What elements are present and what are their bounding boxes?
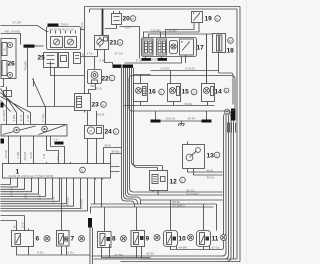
circle sym 19	[215, 16, 221, 22]
component 20	[105, 11, 140, 59]
svg-text:HEI JAUNE: HEI JAUNE	[5, 30, 21, 34]
svg-text:S: S	[216, 17, 218, 21]
wire 23 to 24	[88, 111, 97, 126]
svg-text:45 B: 45 B	[207, 168, 213, 172]
svg-text:9 Gx: 9 Gx	[68, 251, 75, 255]
svg-text:93 Bx: 93 Bx	[185, 102, 193, 106]
wires below 17 row	[125, 57, 186, 64]
circle sym 22	[109, 75, 115, 81]
component 16	[134, 84, 148, 102]
bundle top stubs	[122, 68, 134, 71]
svg-text:27 CA: 27 CA	[115, 52, 123, 56]
circle sym 16	[159, 89, 165, 95]
wires from 25 cluster down	[28, 48, 85, 125]
svg-text:2 RB: 2 RB	[12, 115, 16, 122]
svg-text:B: B	[4, 48, 6, 52]
component 24 blower	[85, 126, 104, 139]
frame right border	[237, 7, 240, 262]
junction node	[225, 109, 230, 114]
svg-text:13: 13	[207, 153, 215, 160]
svg-text:94 BR: 94 BR	[179, 246, 188, 250]
circle sym 24	[113, 129, 119, 135]
circle sym 20	[130, 16, 136, 22]
svg-text:29 GR: 29 GR	[4, 149, 8, 159]
svg-text:103 B: 103 B	[97, 113, 105, 117]
svg-text:93 DxRQ: 93 DxRQ	[187, 192, 200, 196]
circle sym 12	[180, 177, 186, 183]
multifunction switch wide box (component 2)	[1, 125, 67, 137]
svg-text:16: 16	[149, 89, 157, 96]
black bar on wire x91	[88, 218, 92, 228]
svg-text:S: S	[102, 103, 104, 107]
band right segments	[91, 200, 223, 207]
svg-text:10: 10	[179, 236, 187, 243]
svg-text:93 BxRQ: 93 BxRQ	[173, 204, 186, 208]
circle sym 21	[117, 40, 123, 46]
frame bottom border	[121, 259, 241, 262]
circle sym 6	[44, 236, 50, 242]
left edge nub 1	[1, 103, 4, 108]
svg-text:9: 9	[146, 236, 150, 243]
svg-text:9 G/42: 9 G/42	[161, 67, 170, 71]
svg-text:2 R: 2 R	[56, 155, 60, 161]
svg-text:S: S	[216, 153, 218, 157]
fusebox right outputs	[62, 178, 102, 231]
component 26 (instrument box)	[1, 39, 16, 79]
svg-text:24: 24	[105, 129, 113, 136]
svg-text:JAUNE: JAUNE	[65, 197, 69, 207]
component 15	[168, 84, 181, 102]
circle sym 14	[224, 88, 229, 93]
wire 27GR top left	[1, 26, 49, 32]
top right feeder wires	[144, 23, 213, 84]
svg-text:12 B: 12 B	[21, 222, 25, 228]
svg-text:9 G/40: 9 G/40	[186, 67, 195, 71]
svg-text:15: 15	[182, 89, 190, 96]
component 14	[202, 84, 215, 102]
hatch below bar	[228, 123, 236, 133]
svg-text:26: 26	[8, 61, 16, 68]
svg-text:27 GR: 27 GR	[13, 21, 23, 25]
bottom band left extents	[92, 256, 229, 259]
connector bars under 17 row	[142, 58, 152, 61]
svg-text:S: S	[181, 178, 183, 182]
svg-text:55 B: 55 B	[96, 87, 102, 91]
svg-text:29A: 29A	[23, 193, 27, 198]
wire 25 to node x84	[81, 29, 85, 31]
svg-text:99 Bx: 99 Bx	[112, 150, 120, 154]
svg-text:3 B: 3 B	[42, 154, 46, 159]
svg-text:22: 22	[102, 76, 110, 83]
svg-text:24 B: 24 B	[29, 152, 33, 158]
svg-text:50 15 54 30 17 19: 50 15 54 30 17 19	[50, 28, 75, 32]
svg-text:97 Gx: 97 Gx	[212, 246, 221, 250]
connector bar C2	[24, 45, 35, 48]
node wire x84 vertical	[84, 7, 86, 94]
switch circle b	[42, 126, 48, 132]
fusebox output fan	[1, 178, 88, 211]
circle sym 9	[154, 235, 160, 241]
svg-text:36 40: 36 40	[188, 117, 196, 121]
svg-text:14: 14	[215, 89, 223, 96]
circle sym 1	[80, 167, 86, 173]
svg-text:750 R: 750 R	[61, 23, 70, 27]
svg-text:30 NOIR: 30 NOIR	[2, 109, 6, 122]
ground line 8-9	[102, 244, 151, 258]
circle sym 11	[221, 235, 227, 241]
svg-text:2 A: 2 A	[54, 138, 58, 142]
component 7	[57, 231, 70, 247]
svg-text:37 B: 37 B	[136, 59, 142, 63]
component 21	[95, 36, 109, 50]
svg-text:2 NOIR: 2 NOIR	[9, 186, 13, 197]
svg-text:19: 19	[205, 16, 213, 23]
small connector box left of 21	[74, 53, 81, 64]
connector bar small	[55, 142, 64, 145]
svg-text:93 BR: 93 BR	[115, 253, 124, 257]
component 25 cluster (ignition switch group)	[44, 27, 81, 68]
feed drops to bottom row	[1, 200, 217, 232]
svg-text:POWR: POWR	[24, 60, 28, 70]
fusebox feed wires from bundle	[104, 148, 122, 172]
svg-text:9 Gx: 9 Gx	[38, 251, 45, 255]
svg-text:11: 11	[212, 236, 219, 243]
svg-text:750 A: 750 A	[124, 26, 132, 30]
svg-text:S: S	[193, 90, 195, 94]
svg-text:S: S	[115, 130, 117, 134]
svg-text:2 RB: 2 RB	[16, 152, 20, 159]
svg-text:96 B: 96 B	[105, 144, 111, 148]
component 8	[98, 232, 112, 248]
component 10	[164, 231, 178, 247]
wire pair below bar	[90, 228, 93, 264]
svg-text:C 30x: C 30x	[41, 113, 45, 121]
svg-text:S: S	[225, 89, 227, 93]
frame top border	[85, 7, 241, 13]
circle sym 23	[101, 102, 107, 108]
svg-text:7: 7	[71, 236, 75, 243]
connector bar pair above central bundle	[113, 65, 122, 68]
wires 21 bottom	[81, 50, 113, 65]
svg-text:16 B: 16 B	[151, 58, 157, 62]
wires 24 to fusebox	[88, 139, 97, 164]
svg-text:62 BL: 62 BL	[147, 252, 155, 256]
svg-text:25: 25	[38, 55, 46, 62]
enclosing rounded box	[129, 76, 235, 112]
battery feed thick wire	[102, 9, 104, 36]
svg-text:6: 6	[36, 236, 40, 243]
svg-text:2 RB: 2 RB	[26, 115, 30, 122]
component 9	[131, 231, 145, 247]
feeds into lamp row	[134, 34, 219, 84]
svg-text:1: 1	[16, 169, 20, 176]
earth link wire	[156, 111, 207, 121]
svg-text:12: 12	[170, 179, 178, 186]
wire from bar C2	[35, 45, 44, 47]
ground line 10-11	[171, 246, 222, 250]
svg-text:6 B: 6 B	[100, 59, 105, 63]
svg-text:226 Hx: 226 Hx	[166, 117, 176, 121]
circle sym 10	[188, 235, 194, 241]
bundle fan top	[224, 112, 234, 118]
circle sym 8	[121, 236, 127, 242]
pilot circle 26a	[7, 42, 12, 47]
svg-text:26 BVB: 26 BVB	[79, 199, 83, 209]
wire HEI JAUNE	[1, 34, 21, 45]
component 11	[197, 231, 211, 247]
bundle verticals right	[222, 118, 234, 262]
svg-text:2 LB: 2 LB	[37, 194, 41, 200]
ground symbol	[178, 121, 185, 126]
component 6	[12, 229, 34, 247]
connector bar top-left	[48, 24, 59, 27]
earth bars below lamp row	[151, 120, 161, 123]
circle sym 7	[79, 236, 85, 242]
circle sym 18	[228, 38, 234, 44]
svg-text:755 R: 755 R	[80, 22, 84, 31]
svg-text:4 Tk: 4 Tk	[87, 52, 93, 56]
svg-text:30: 30	[13, 225, 17, 229]
ground line 6-7	[17, 246, 91, 255]
component 23	[75, 94, 91, 113]
svg-text:S: S	[111, 76, 113, 80]
steps from 26 to wire bank	[1, 79, 31, 113]
pilot circle 26b	[7, 72, 12, 77]
svg-text:COR: COR	[51, 196, 55, 204]
circle sym 13	[214, 152, 220, 158]
svg-text:17: 17	[197, 45, 205, 52]
wire bank verticals	[7, 87, 46, 125]
svg-text:20: 20	[123, 16, 131, 23]
small box on bank	[4, 91, 12, 97]
svg-text:31 B: 31 B	[19, 115, 23, 121]
svg-text:8: 8	[112, 236, 116, 243]
black bar on right bundle	[231, 109, 236, 121]
svg-text:29 GR: 29 GR	[23, 151, 27, 161]
bundle verticals	[122, 69, 223, 208]
svg-text:S: S	[160, 90, 162, 94]
component 22 horn	[88, 57, 102, 94]
switch circle a	[14, 127, 20, 133]
lamp row bottom wire 93Bx	[124, 102, 215, 106]
circle sym 15	[191, 89, 197, 95]
svg-text:23: 23	[92, 102, 100, 109]
svg-text:35 Dx: 35 Dx	[207, 175, 215, 179]
svg-text:21: 21	[110, 40, 118, 47]
svg-text:S: S	[81, 168, 83, 172]
left edge nub 2	[1, 139, 5, 144]
staircase wires below switch to fusebox	[9, 136, 65, 164]
svg-text:18: 18	[227, 48, 235, 55]
